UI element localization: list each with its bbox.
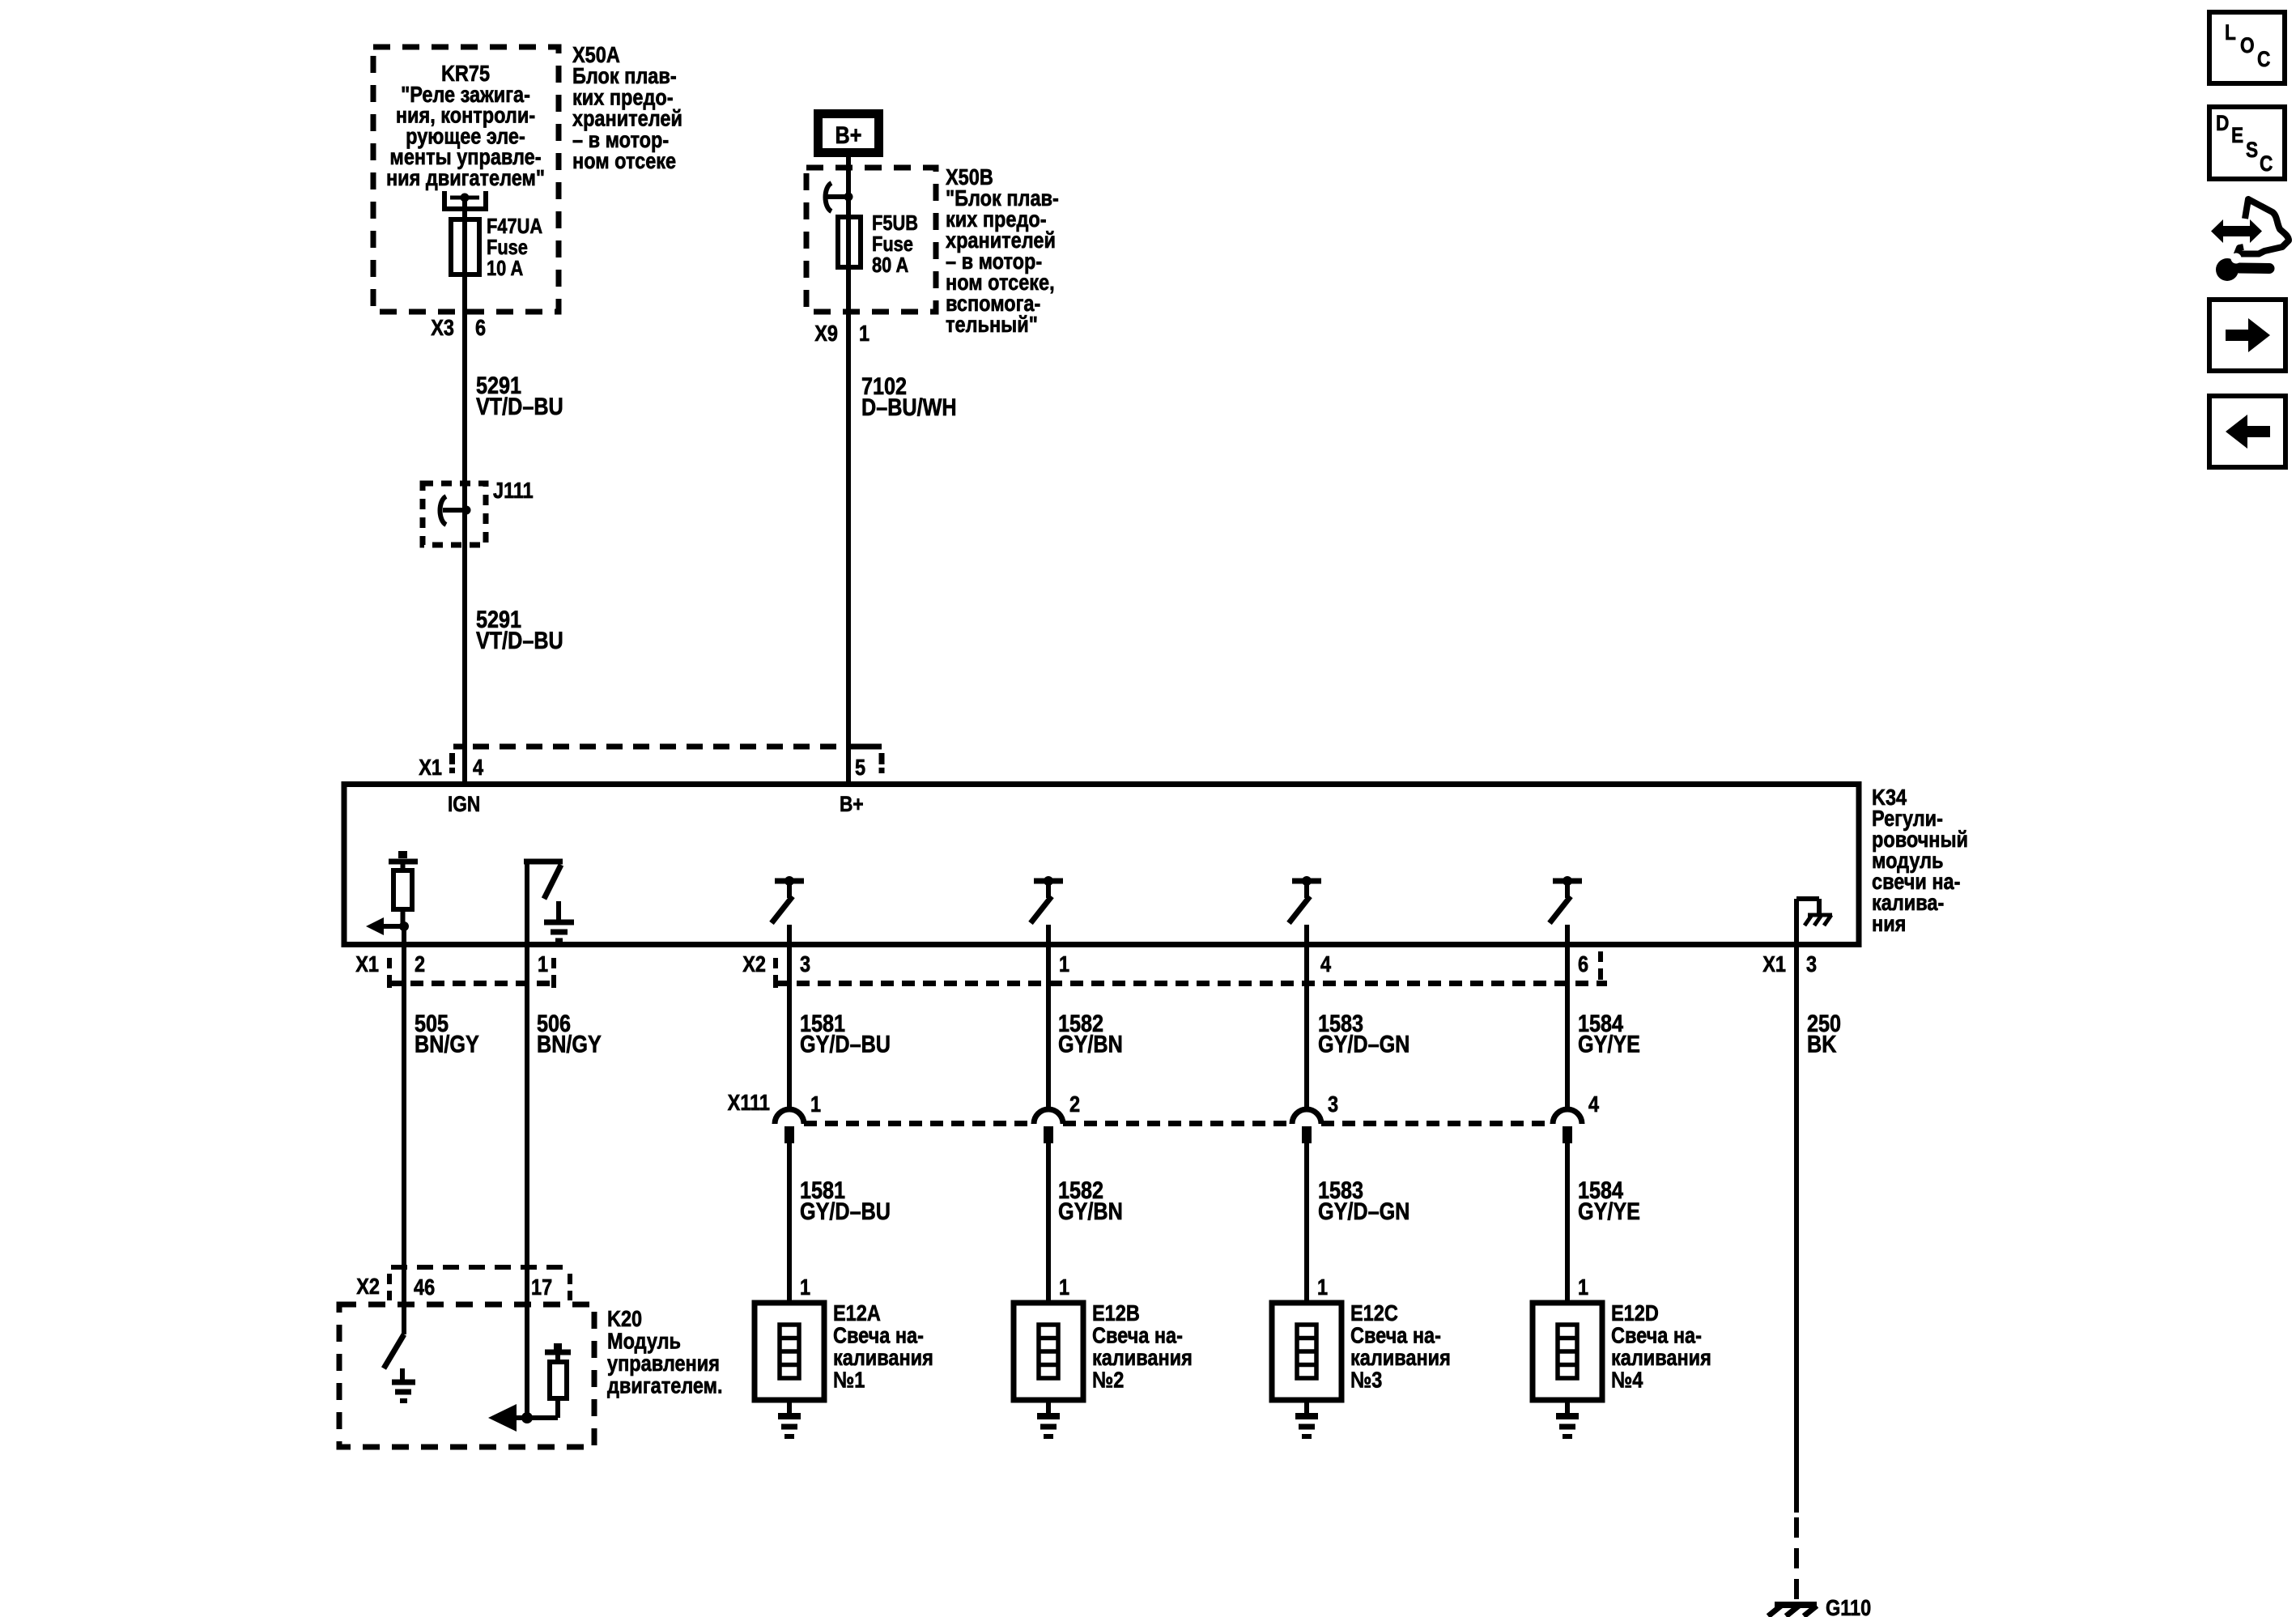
svg-text:№2: №2 (1092, 1368, 1124, 1393)
svg-text:3: 3 (1806, 952, 1817, 977)
svg-text:каливания: каливания (1611, 1346, 1711, 1370)
svg-text:1: 1 (1059, 1275, 1069, 1300)
svg-text:X3: X3 (431, 316, 454, 340)
svg-text:Свеча на-: Свеча на- (833, 1324, 924, 1348)
svg-text:Свеча на-: Свеча на- (1611, 1324, 1702, 1348)
svg-text:X1: X1 (1762, 952, 1786, 977)
svg-text:4: 4 (473, 755, 484, 780)
svg-text:IGN: IGN (448, 792, 480, 816)
svg-text:Свеча на-: Свеча на- (1350, 1324, 1441, 1348)
svg-text:тельный": тельный" (946, 313, 1038, 337)
svg-text:VT/D–BU: VT/D–BU (476, 393, 563, 420)
svg-text:E12B: E12B (1092, 1301, 1140, 1326)
svg-text:Модуль: Модуль (607, 1330, 681, 1354)
svg-text:ния двигателем": ния двигателем" (386, 166, 545, 190)
svg-text:Fuse: Fuse (872, 232, 913, 256)
svg-text:S: S (2246, 138, 2258, 162)
svg-text:BN/GY: BN/GY (537, 1030, 602, 1057)
svg-text:X1: X1 (355, 952, 379, 977)
svg-text:4: 4 (1588, 1092, 1600, 1117)
svg-text:двигателем.: двигателем. (607, 1374, 723, 1398)
svg-text:80 A: 80 A (872, 253, 908, 277)
svg-text:GY/BN: GY/BN (1058, 1030, 1123, 1057)
svg-text:BK: BK (1807, 1030, 1836, 1057)
svg-text:1: 1 (800, 1275, 810, 1300)
svg-text:6: 6 (1578, 952, 1588, 977)
svg-text:X2: X2 (742, 952, 766, 977)
svg-text:GY/D–BU: GY/D–BU (800, 1030, 891, 1057)
svg-text:№1: №1 (833, 1368, 865, 1393)
svg-text:17: 17 (531, 1275, 552, 1300)
svg-text:1: 1 (538, 952, 548, 977)
svg-text:O: O (2240, 33, 2255, 57)
svg-text:F5UB: F5UB (872, 211, 918, 235)
svg-text:3: 3 (800, 952, 810, 977)
svg-text:E12C: E12C (1350, 1301, 1398, 1326)
svg-text:X1: X1 (419, 755, 442, 780)
svg-text:10 A: 10 A (487, 257, 523, 280)
svg-text:GY/D–BU: GY/D–BU (800, 1198, 891, 1225)
svg-text:F47UA: F47UA (487, 215, 542, 238)
svg-text:1: 1 (859, 321, 870, 346)
svg-text:№4: №4 (1611, 1368, 1643, 1393)
svg-text:B+: B+ (835, 121, 862, 149)
svg-text:D–BU/WH: D–BU/WH (861, 394, 957, 421)
svg-text:3: 3 (1328, 1092, 1338, 1117)
svg-text:каливания: каливания (833, 1346, 933, 1370)
svg-text:E12A: E12A (833, 1301, 881, 1326)
svg-text:1: 1 (810, 1092, 821, 1117)
svg-text:5: 5 (855, 755, 865, 780)
svg-text:J111: J111 (493, 479, 534, 503)
svg-text:Свеча на-: Свеча на- (1092, 1324, 1183, 1348)
svg-text:каливания: каливания (1092, 1346, 1193, 1370)
svg-text:E12D: E12D (1611, 1301, 1659, 1326)
svg-text:4: 4 (1320, 952, 1332, 977)
svg-text:№3: №3 (1350, 1368, 1382, 1393)
svg-text:BN/GY: BN/GY (415, 1030, 479, 1057)
svg-text:L: L (2225, 20, 2236, 45)
svg-text:1: 1 (1317, 1275, 1328, 1300)
svg-text:C: C (2257, 47, 2270, 71)
svg-text:E: E (2231, 123, 2243, 147)
svg-text:VT/D–BU: VT/D–BU (476, 627, 563, 654)
svg-text:GY/D–GN: GY/D–GN (1318, 1030, 1409, 1057)
svg-text:GY/BN: GY/BN (1058, 1198, 1123, 1225)
svg-text:6: 6 (475, 316, 486, 340)
svg-text:D: D (2216, 111, 2229, 135)
svg-text:каливания: каливания (1350, 1346, 1451, 1370)
svg-text:2: 2 (415, 952, 425, 977)
svg-text:B+: B+ (840, 792, 864, 816)
svg-text:G110: G110 (1826, 1596, 1871, 1617)
svg-text:ном отсеке: ном отсеке (572, 149, 676, 173)
svg-text:X2: X2 (356, 1274, 380, 1299)
svg-text:Fuse: Fuse (487, 236, 528, 259)
svg-text:2: 2 (1069, 1092, 1080, 1117)
svg-text:C: C (2260, 151, 2273, 176)
svg-text:GY/YE: GY/YE (1578, 1198, 1640, 1225)
svg-text:управления: управления (607, 1351, 720, 1376)
svg-text:46: 46 (414, 1275, 435, 1300)
svg-text:1: 1 (1059, 952, 1069, 977)
svg-text:K20: K20 (607, 1307, 642, 1331)
svg-text:GY/YE: GY/YE (1578, 1030, 1640, 1057)
svg-text:X9: X9 (814, 321, 838, 346)
svg-text:1: 1 (1578, 1275, 1588, 1300)
svg-text:ния: ния (1872, 912, 1906, 936)
svg-text:X111: X111 (728, 1091, 770, 1115)
svg-text:GY/D–GN: GY/D–GN (1318, 1198, 1409, 1225)
